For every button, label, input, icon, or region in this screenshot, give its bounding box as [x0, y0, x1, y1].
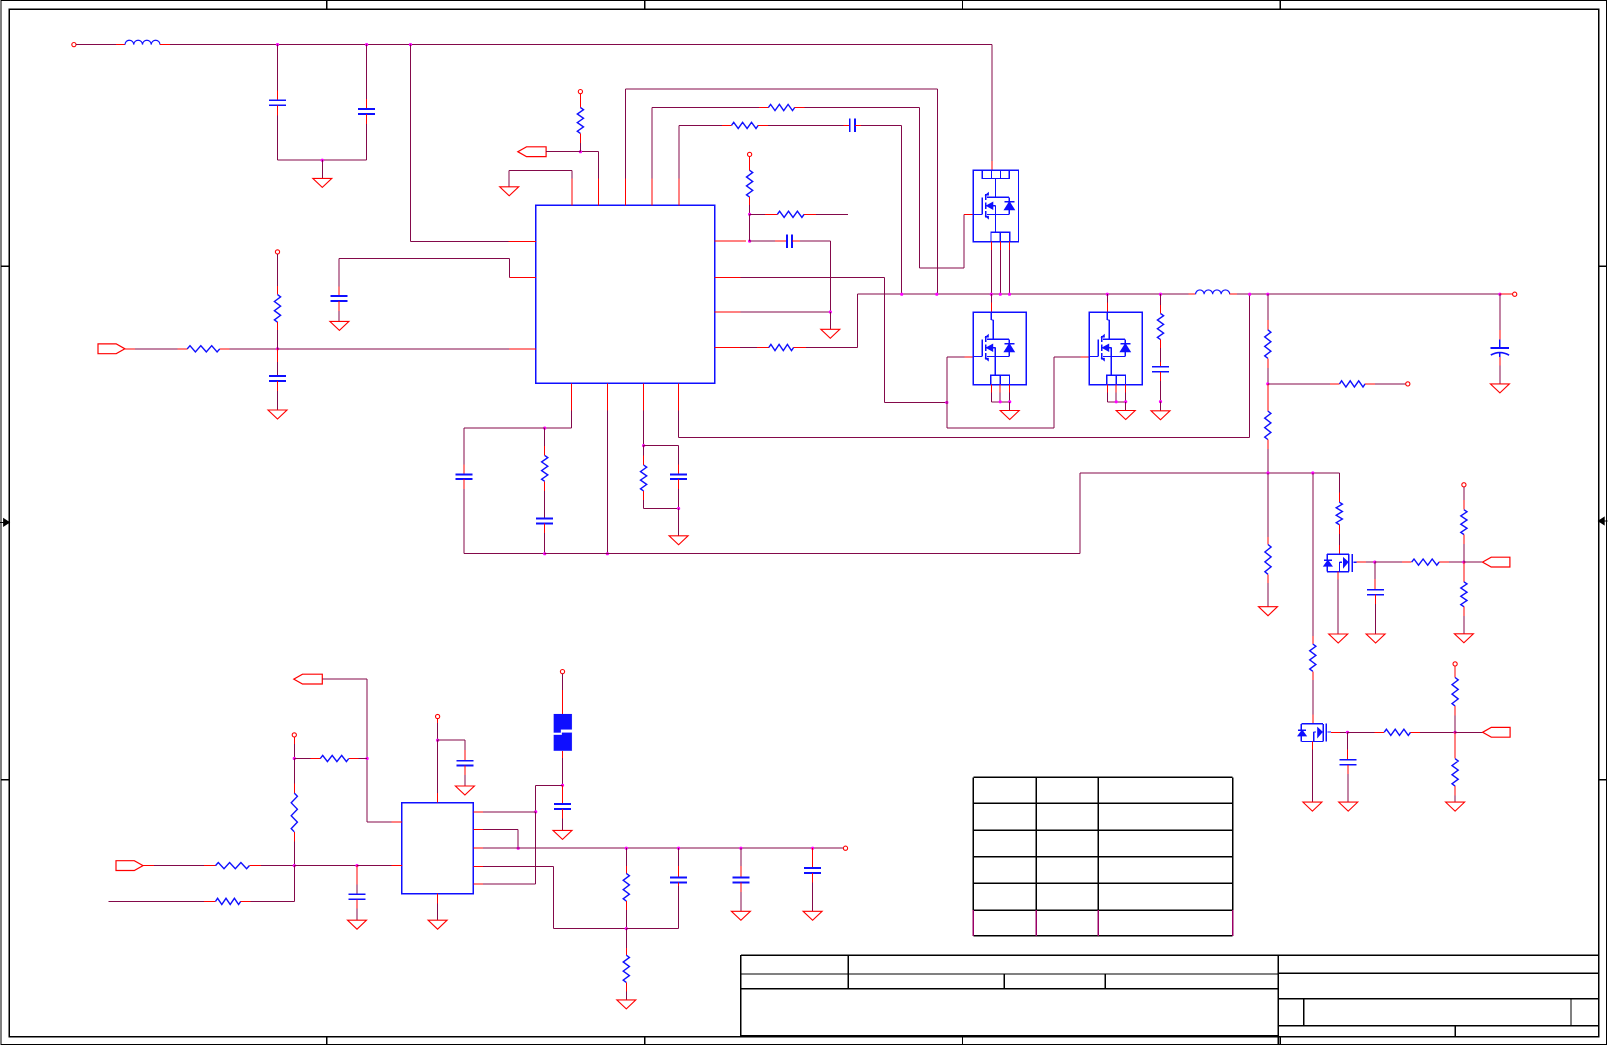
wire FB cap stub	[277, 349, 279, 376]
wire C2 to gnd bus	[366, 114, 368, 160]
wire Q4 gate to R	[1375, 561, 1412, 563]
junction Q2 src mid	[999, 400, 1002, 403]
wire R-Q4G out	[1439, 561, 1464, 563]
wire EN2 pullup top	[293, 737, 295, 759]
resistor R-Q4G	[1412, 559, 1439, 565]
wire R-FBP to node	[277, 322, 279, 349]
ground C-FB	[268, 410, 287, 419]
terminal F1 in	[560, 670, 564, 674]
resistor R-EN2	[320, 755, 349, 761]
capacitor C-COMP	[330, 296, 347, 301]
terminal FB pullup	[275, 250, 279, 254]
wire COMP to C4	[464, 428, 545, 474]
ground C-Q4	[1366, 634, 1385, 643]
junction SW d	[999, 293, 1002, 296]
ground PGND	[821, 329, 840, 338]
junction out d	[811, 847, 814, 850]
right center arrow	[1599, 517, 1608, 524]
wire snubber bot	[1160, 372, 1162, 402]
junction VIN2 b	[355, 864, 358, 867]
wire Q2 drain	[990, 294, 992, 312]
wire div low lead	[1267, 384, 1269, 411]
resistor R-G1	[1265, 545, 1271, 575]
wire Q4 source	[1337, 572, 1339, 634]
resistor R-Q5D	[1310, 644, 1316, 671]
wire U2 pin3 out	[473, 847, 843, 849]
left center arrow	[0, 519, 9, 526]
junction LGATE split	[945, 401, 948, 404]
resistor R-FS	[641, 465, 647, 491]
terminal VIN	[72, 43, 76, 47]
wire OC link	[749, 214, 751, 241]
wire Q3 drain	[1106, 294, 1108, 312]
wire U1 pin GND	[606, 383, 608, 553]
capacitor C-OUT polarized	[1491, 339, 1509, 356]
wire R-Q4D to Q4	[1338, 525, 1340, 555]
inductor L2	[1196, 290, 1230, 294]
mosfet Q2	[973, 312, 1026, 384]
junction SW e	[1008, 293, 1011, 296]
junction Q5 out node	[1454, 731, 1457, 734]
junction PGND node	[829, 310, 832, 313]
resistor R-Q4U	[1461, 510, 1467, 535]
wire comp RC top	[544, 428, 546, 455]
capacitor C-OUT2b	[732, 877, 749, 882]
wire Q5 pulldown	[1454, 732, 1456, 758]
wire C-Q5 lead	[1347, 732, 1349, 760]
wire U1 pin EN	[580, 152, 598, 206]
wire C-OUT2a bot	[678, 882, 680, 886]
terminal OC pullup	[748, 152, 752, 156]
capacitor C4	[456, 475, 473, 480]
wire U2 gnd pin	[437, 894, 439, 921]
junction VIN-C1	[276, 43, 279, 46]
title block right section	[1278, 955, 1599, 1044]
resistor R-Q5G	[1384, 729, 1410, 735]
wire C-OC to gnd node	[792, 241, 830, 312]
junction U2 pin1 node	[534, 810, 537, 813]
wire R-Q4L gnd	[1463, 607, 1465, 634]
capacitor C-PH	[850, 119, 855, 132]
wire U1 pin COMP	[545, 383, 572, 428]
junction out b	[677, 847, 680, 850]
terminal Q5 pullup	[1453, 662, 1457, 666]
wire dist R-G1 lead	[1267, 473, 1269, 545]
wire R-Q5U out	[1454, 706, 1456, 732]
junction Q4 out node	[1462, 561, 1465, 564]
wire R-IN2 out	[293, 832, 295, 866]
wire R-VIN2 out	[249, 865, 294, 867]
wire C-F1 lead	[562, 785, 564, 804]
wire U1 pin OC	[715, 240, 747, 242]
wire OC cap lead	[750, 240, 787, 242]
wire R-Q5D to Q5	[1312, 671, 1314, 724]
wire VIN2 in	[143, 865, 216, 867]
junction div node	[1266, 382, 1269, 385]
wire U2 VCC to pin	[437, 740, 439, 802]
wire C-OUT2b gnd	[740, 882, 742, 911]
resistor R-EN	[577, 108, 583, 134]
port Q5 out	[1483, 727, 1511, 737]
revision table	[973, 777, 1232, 936]
wire snubber stem	[1160, 402, 1162, 411]
wire C4 to bus	[464, 479, 545, 554]
wire dist Q4 lead	[1338, 493, 1340, 503]
wire U1 pin VIN sense	[411, 45, 536, 242]
wire C-VIN2 lead	[356, 866, 358, 895]
junction FS node	[642, 444, 645, 447]
wire VIN2 stub	[357, 865, 402, 867]
junction bus-gnd	[606, 552, 609, 555]
wire U1 pin AGND	[509, 171, 572, 206]
resistor R-UG	[768, 104, 794, 110]
capacitor C2	[358, 109, 375, 114]
wire EN port link	[546, 151, 580, 153]
terminal EN pullup	[578, 90, 582, 94]
wire C-OUT2c lead	[812, 848, 814, 868]
wire R-FS out	[644, 491, 679, 509]
wire L2 in	[1189, 293, 1196, 295]
wire snubber top	[1160, 294, 1162, 305]
resistor R-DIV1	[1265, 330, 1271, 359]
wire R-G1 gnd	[1267, 574, 1269, 606]
terminal VOUT	[1513, 292, 1517, 296]
wire R-OUT bot	[625, 901, 627, 929]
wire C1 drop	[277, 45, 279, 101]
wire VIN to L1	[76, 44, 125, 46]
junction bus-RC	[543, 552, 546, 555]
junction VOUT div	[1266, 293, 1269, 296]
wire L1 out	[160, 44, 992, 46]
resistor R-AUX	[216, 898, 241, 904]
wire div to R-SET	[1268, 383, 1340, 385]
wire C-VCC gnd	[464, 766, 466, 787]
ground C-Q5	[1339, 802, 1358, 811]
wire R-OUT lead	[625, 848, 627, 873]
junction U2 VCC	[436, 739, 439, 742]
terminal VOUT2	[843, 846, 847, 850]
controller U1	[536, 205, 715, 383]
wire U2 pin5	[473, 883, 535, 885]
wire FS res branch	[643, 446, 645, 466]
wire U2 pin1	[473, 811, 535, 813]
ground R-LOAD	[617, 1000, 636, 1009]
resistor R-COMP	[542, 456, 548, 482]
ground R-Q5L	[1446, 802, 1465, 811]
wire comp RC mid	[544, 481, 546, 518]
capacitor C-Q5	[1340, 760, 1357, 765]
junction snubber gnd	[1159, 400, 1162, 403]
junction out-pin2	[517, 847, 520, 850]
wire F1 lead	[562, 674, 564, 714]
capacitor C1	[269, 100, 286, 105]
wire C-OUT gnd	[1499, 357, 1501, 384]
mosfet Q1	[973, 170, 1018, 241]
junction OC mid	[748, 213, 751, 216]
ground Q5 src	[1303, 802, 1322, 811]
wire Q4 pulldown	[1463, 562, 1465, 582]
wire R-UG to Q1 gate	[795, 108, 974, 269]
capacitor C-VIN2	[349, 894, 366, 899]
wire Q1 drain	[991, 45, 993, 171]
port FB input	[98, 344, 125, 354]
wire R-Q5G out	[1411, 731, 1456, 733]
junction out a	[625, 847, 628, 850]
junction Q5 gate node	[1346, 731, 1349, 734]
ground C-OUT	[1490, 384, 1509, 393]
wire SW rail	[857, 293, 1188, 295]
wire div top lead	[1267, 294, 1269, 330]
wire C-PH to rail	[855, 125, 902, 294]
junction COMP node	[543, 427, 546, 430]
wire R-Q4U out	[1463, 535, 1465, 563]
wire R-ISEN to rail	[794, 294, 858, 347]
wire L2 out	[1230, 293, 1500, 295]
wire EN2 div leg	[293, 759, 295, 794]
wire EN2 res link	[294, 758, 320, 760]
wire Q3 sources	[1107, 385, 1125, 402]
junction Q2 src right	[1008, 400, 1011, 403]
port EN	[518, 147, 546, 157]
junction Q3 src right	[1124, 400, 1127, 403]
ground input filter	[313, 178, 332, 187]
junction gnd bus	[321, 159, 324, 162]
wire U1 pin LGATE	[715, 277, 947, 402]
ground Q3	[1116, 411, 1135, 420]
wire U2 VCC lead	[437, 719, 439, 741]
wire C-F1 gnd	[562, 809, 564, 830]
junction SW c	[990, 293, 993, 296]
wire R-LOAD lead	[625, 929, 627, 956]
capacitor C-Q4	[1367, 590, 1384, 595]
wire aux line	[108, 900, 215, 902]
resistor R-SET	[1340, 381, 1366, 387]
resistor R-Q4D	[1336, 502, 1342, 524]
junction EN2 div	[293, 757, 296, 760]
junction VOUT fb	[1248, 293, 1251, 296]
junction dist b	[1311, 471, 1314, 474]
junction Q4 gate node	[1373, 561, 1376, 564]
wire EN pullup bot	[579, 133, 581, 151]
wire R-Q5L gnd	[1454, 786, 1456, 802]
wire U1 pin VSEN	[679, 294, 1250, 437]
wire U2 pin4	[473, 867, 626, 929]
wire VOUT terminal lead	[1500, 293, 1513, 295]
resistor R-Q5U	[1452, 678, 1458, 707]
wire U2 pin2	[473, 830, 518, 849]
wire C-OUT lead	[1499, 294, 1501, 339]
resistor R-DIV2	[1265, 411, 1271, 440]
wire Q2 gnd stem	[1009, 402, 1011, 411]
wire F1 to pin1	[536, 785, 563, 812]
wire Q4 gate	[1357, 561, 1375, 563]
wire LGATE to Q2	[947, 357, 974, 402]
wire C-FS out	[678, 479, 680, 508]
ground U2	[428, 920, 447, 929]
inductor L1	[125, 40, 160, 44]
junction VOUT cap	[1498, 293, 1501, 296]
wire U1 pin COMP2	[339, 259, 536, 297]
wire FS gnd stem	[678, 509, 680, 536]
capacitor C-OC	[787, 234, 792, 248]
ground C-OUT2b	[731, 911, 750, 920]
wire comp RC bot	[544, 524, 546, 554]
mosfet Q3	[1089, 312, 1142, 384]
wire C-VIN2 gnd	[356, 899, 358, 920]
ground snubber	[1151, 411, 1170, 420]
ground C-VCC	[455, 786, 474, 795]
wire C-OUT2b lead	[740, 848, 742, 877]
wire snubber r lead	[1160, 305, 1162, 314]
junction OC node	[748, 240, 751, 243]
wire Q1 sources	[991, 242, 1009, 295]
wire R-SET out	[1365, 383, 1406, 385]
junction SW a	[900, 293, 903, 296]
mosfet Q4	[1324, 554, 1357, 572]
junction SW g	[1159, 293, 1162, 296]
resistor R-FBP	[274, 295, 280, 323]
wire VIN2 to U2	[294, 865, 357, 867]
junction bus2	[625, 927, 628, 930]
ground R-G1	[1259, 607, 1278, 616]
ground C-VIN2	[348, 920, 367, 929]
resistor R-PH	[732, 122, 759, 128]
wire Q5 gate to R	[1348, 731, 1385, 733]
port Q4 out	[1483, 557, 1510, 567]
wire PGND stem	[829, 312, 831, 329]
junction FB node	[276, 347, 279, 350]
resistor R-Q5L	[1452, 759, 1458, 786]
wire C-OUT2c gnd	[812, 873, 814, 911]
resistor R-ISEN	[769, 344, 794, 350]
terminal EN2 pullup	[292, 733, 296, 737]
wire R-AUX out	[241, 866, 295, 902]
resistor R-Q4L	[1461, 582, 1467, 607]
ground U1 AGND	[500, 187, 519, 196]
terminal Q4 pullup	[1462, 483, 1466, 487]
wire C-Q5 gnd	[1347, 765, 1349, 802]
mosfet Q5	[1298, 724, 1331, 742]
wire U1 pin FS	[643, 383, 645, 445]
junction dist a	[1266, 471, 1269, 474]
junction Q3 src mid	[1115, 400, 1118, 403]
capacitor C-VCC	[456, 761, 473, 766]
wire pin1 to pin5	[535, 812, 537, 884]
capacitor C5	[536, 519, 553, 524]
wire R-EN2 out	[349, 758, 367, 760]
terminal R-SET	[1406, 382, 1410, 386]
wire FB in	[125, 348, 187, 350]
wire dist Q5 lead	[1312, 473, 1314, 644]
wire dist line	[1268, 473, 1339, 493]
ground R-Q4L	[1454, 634, 1473, 643]
wire Q4 pullup top	[1463, 487, 1465, 510]
wire R-DIV2 out	[1267, 440, 1269, 474]
resistor R-IN2	[291, 793, 297, 832]
wire U1 pin UGATE	[652, 108, 768, 206]
junction SW b	[935, 293, 938, 296]
wire R-OC1 out	[749, 197, 751, 214]
resistor R-OC2	[777, 211, 804, 217]
wire R-LOAD gnd	[625, 982, 627, 1000]
junction F1 node	[561, 784, 564, 787]
wire FB pullup	[277, 254, 279, 295]
wire Q2 sources	[991, 385, 1009, 402]
wire U1 pin BOOT	[625, 89, 937, 294]
wire C2 drop	[366, 45, 368, 109]
wire U1 pin PGND	[715, 311, 831, 313]
fuse F1	[554, 714, 572, 751]
resistor R-SNUB	[1157, 314, 1163, 340]
capacitor C-SNUB	[1152, 367, 1169, 372]
wire F1 out	[562, 751, 564, 786]
wire R-OC2 tail	[804, 213, 848, 215]
wire C-Q4 lead	[1374, 562, 1376, 590]
regulator U2	[402, 803, 474, 894]
wire div mid lead	[1267, 358, 1269, 384]
wire Q5 source	[1311, 742, 1313, 803]
capacitor C-FS	[670, 475, 687, 480]
wire C-VCC branch	[438, 740, 465, 761]
wire bus2 tail	[626, 886, 678, 929]
wire Q5 pullup top	[1454, 666, 1456, 678]
ground C-OUT2c	[803, 911, 822, 920]
wire EN pullup top	[579, 94, 581, 108]
capacitor C-FB	[269, 376, 286, 381]
wire U1 pin PHASE	[679, 125, 732, 205]
wire Q5 gate	[1331, 731, 1348, 733]
wire Q3 gnd stem	[1125, 402, 1127, 411]
port VIN2	[116, 861, 143, 871]
junction VIN2 a	[293, 864, 296, 867]
resistor R-VIN2	[216, 863, 250, 869]
title block left section	[741, 955, 1600, 1036]
junction EN node	[579, 150, 582, 153]
ground C-F1	[553, 830, 572, 839]
wire comp bus	[545, 473, 1268, 554]
wire gnd stem	[321, 160, 323, 178]
wire Q5 port link	[1455, 731, 1483, 733]
resistor R-LOAD	[623, 955, 629, 982]
wire snubber mid	[1160, 340, 1162, 367]
wire C-COMP gnd	[338, 301, 340, 321]
wire C1 to gnd bus	[278, 105, 367, 160]
wire U1 pin ISEN	[715, 347, 769, 349]
wire C-OUT2a leads	[678, 848, 680, 877]
resistor R-OC1	[747, 170, 753, 197]
ground Q2	[1000, 411, 1019, 420]
ground Q4 src	[1329, 634, 1348, 643]
resistor R-OUT	[623, 873, 629, 901]
capacitor C-OUT2c	[804, 868, 821, 873]
junction VIN-C2	[365, 43, 368, 46]
junction EN2 node	[366, 757, 369, 760]
wire FS cap branch	[644, 446, 679, 475]
wire OC mid right	[750, 213, 778, 215]
ground FS	[669, 536, 688, 545]
port EN2	[294, 674, 323, 684]
junction SW f	[1106, 293, 1109, 296]
wire C-FB gnd	[277, 381, 279, 410]
wire LGATE to Q3	[947, 357, 1090, 428]
capacitor C-F1	[554, 804, 571, 809]
wire FB to U1	[278, 348, 536, 350]
resistor R-FB	[187, 346, 220, 352]
ground C-COMP	[330, 321, 349, 330]
wire Q4 port link	[1464, 561, 1483, 563]
terminal U2 VCC	[436, 714, 440, 718]
wire R-PH to C-PH	[758, 124, 850, 126]
